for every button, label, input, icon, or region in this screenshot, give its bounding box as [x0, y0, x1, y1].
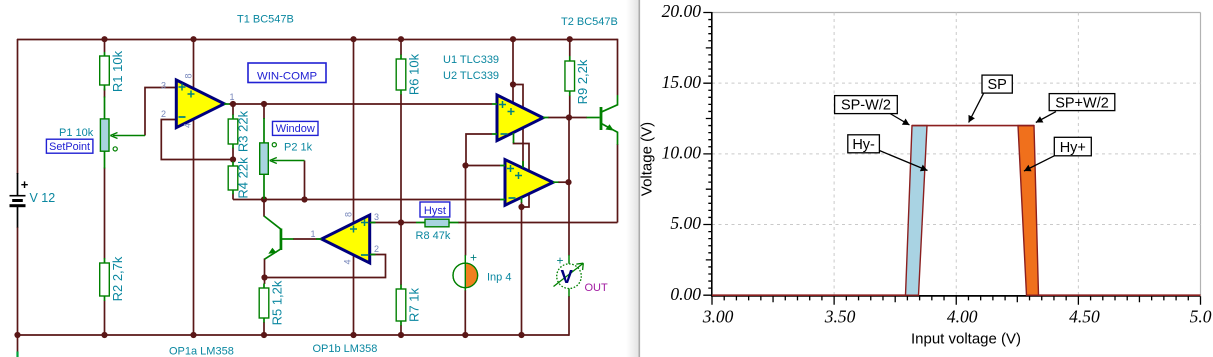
wire R8 node down to R7: [400, 223, 402, 286]
value label R7 1k: [406, 288, 421, 322]
svg-text:R6 10k: R6 10k: [406, 53, 421, 95]
resistor R9: [565, 56, 575, 96]
wire OP1b pin4 to bottom rail: [353, 252, 355, 335]
transistor T2 (BC547B): [587, 95, 618, 145]
wire Inp4 bottom to rail: [464, 290, 466, 335]
svg-text:R5 1,2k: R5 1,2k: [270, 280, 285, 325]
svg-text:Inp 4: Inp 4: [487, 272, 511, 284]
label P1 10k: [59, 127, 94, 139]
pin 1 OP1b: [310, 229, 315, 239]
label OP1a LM358: [169, 346, 234, 357]
wire input node to U2 plus: [466, 165, 501, 167]
svg-text:+: +: [470, 251, 477, 265]
pin 4 OP1b: [343, 259, 353, 264]
svg-text:P1 10k: P1 10k: [59, 127, 94, 139]
svg-text:Hyst: Hyst: [424, 205, 446, 217]
svg-text:SP-W/2: SP-W/2: [841, 98, 891, 114]
svg-text:Input voltage (V): Input voltage (V): [911, 331, 1021, 348]
junction bottom rail R2: [101, 332, 107, 338]
wire R4 bottom to U2 minus net: [232, 194, 234, 200]
wire R7 bottom to rail: [400, 325, 402, 335]
svg-text:8: 8: [344, 212, 354, 217]
svg-text:0.00: 0.00: [670, 284, 701, 304]
pin 3 OP1b: [374, 212, 379, 222]
wire U1 bottom power path: [514, 142, 530, 207]
transistor T1 (BC547B): [264, 216, 294, 259]
svg-text:T1 BC547B: T1 BC547B: [237, 14, 294, 26]
svg-text:R2 2,7k: R2 2,7k: [110, 256, 125, 301]
pin 1 OP1a: [229, 92, 234, 102]
bottom rail wire: [17, 334, 569, 336]
junction T1 emitter R5: [261, 274, 267, 280]
svg-text:8: 8: [184, 73, 194, 78]
svg-text:3.00: 3.00: [702, 307, 734, 327]
svg-text:4.50: 4.50: [1069, 307, 1100, 327]
svg-text:SetPoint: SetPoint: [49, 141, 90, 153]
junction bottom rail R7: [398, 332, 404, 338]
wire R8 right to T2 emitter net: [458, 222, 618, 224]
curve hysteresis region high (orange): [1018, 126, 1039, 296]
wire P1 bottom to R2 top: [104, 168, 106, 259]
chart plot frame: [712, 13, 1201, 296]
svg-text:1: 1: [229, 92, 234, 102]
wire OP1a pin4 to bottom rail: [193, 115, 195, 335]
svg-text:SP+W/2: SP+W/2: [1055, 95, 1109, 111]
svg-text:R7 1k: R7 1k: [406, 288, 421, 322]
chart y-axis: [703, 12, 712, 296]
wire T2 emitter vertical: [617, 144, 619, 223]
pin 2 OP1b: [374, 244, 379, 254]
junction top rail OP1b pin8: [350, 36, 356, 42]
svg-text:V 12: V 12: [30, 191, 56, 205]
chart gridlines: [712, 13, 1201, 295]
label box Hyst: [420, 202, 450, 217]
wire U1 output node: [548, 117, 569, 119]
wire R3 top lead: [232, 104, 234, 115]
wire left rail to battery: [17, 39, 19, 174]
svg-text:R4 22k: R4 22k: [236, 157, 251, 199]
ground: [16, 352, 18, 357]
wire bottom-left stub to ground: [17, 335, 19, 352]
annotation SP-W/2: [835, 96, 910, 125]
junction P2 top: [261, 101, 267, 107]
pin 2 OP1a: [161, 109, 166, 119]
svg-text:WIN-COMP: WIN-COMP: [257, 70, 317, 82]
wire P2 top: [263, 104, 265, 119]
junction bottom rail R5: [261, 332, 267, 338]
resistor R5: [259, 284, 269, 323]
wire U1 power jog to U2 power: [513, 85, 523, 168]
wire U2 output to node: [558, 181, 569, 183]
pin 8 OP1b: [344, 212, 354, 217]
svg-text:R3 22k: R3 22k: [236, 110, 251, 152]
wire R6 top lead: [400, 39, 402, 55]
wire OP1b pin8 to top rail: [353, 39, 355, 225]
svg-text:OP1b LM358: OP1b LM358: [313, 343, 378, 355]
wire OP1a pin8 to top rail: [193, 39, 195, 95]
wire T1 collector: [263, 200, 265, 217]
battery V1 12V: [10, 173, 29, 228]
resistor R4: [228, 162, 238, 195]
svg-text:3.50: 3.50: [824, 307, 856, 327]
junction top rail R9: [567, 36, 573, 42]
resistor R2: [100, 258, 110, 301]
chart x-axis labels: [702, 307, 1212, 327]
potentiometer P1: [100, 97, 145, 169]
svg-text:Hy-: Hy-: [852, 137, 875, 153]
junction top rail R6: [398, 36, 404, 42]
wire T1 emitter down: [264, 259, 266, 285]
wire R9 top lead: [569, 39, 571, 56]
junction bottom rail OP1a pin4: [190, 332, 196, 338]
svg-text:20.00: 20.00: [662, 1, 702, 21]
wire R6 bottom to R8 node: [400, 94, 402, 223]
svg-text:+: +: [557, 254, 564, 268]
junction bottom rail OP1b pin4: [350, 332, 356, 338]
wire OP1b pin3 to R8 node: [370, 222, 401, 224]
wire U2 bottom power to rail: [521, 202, 523, 335]
junction bottom rail battery: [14, 332, 20, 338]
junction T1 collector net: [261, 196, 267, 202]
wire R8 left lead: [401, 222, 416, 224]
svg-text:R8 47k: R8 47k: [416, 230, 451, 242]
svg-text:U1 TLC339: U1 TLC339: [443, 54, 499, 66]
voltmeter OUT: [554, 254, 584, 297]
wire U1 minus to input node: [466, 134, 492, 166]
chart y-axis labels: [662, 1, 702, 304]
label T1 BC547B: [237, 14, 294, 26]
svg-text:5.00: 5.00: [670, 213, 701, 233]
svg-text:+: +: [21, 177, 29, 192]
junction U1 output node: [566, 114, 572, 120]
svg-text:4.00: 4.00: [947, 307, 978, 327]
wire OP1a pin2 feedback: [161, 120, 233, 160]
potentiometer P2: [260, 118, 305, 199]
annotation SP+W/2: [1036, 94, 1115, 123]
label box WIN-COMP: [248, 63, 326, 83]
junction input node U1 minus U2 plus: [462, 162, 468, 168]
svg-text:U2 TLC339: U2 TLC339: [443, 70, 499, 82]
label V 12: [30, 191, 56, 205]
junction top rail OP1a pin8: [190, 36, 196, 42]
wire battery to bottom rail: [17, 227, 19, 336]
label box Window: [273, 121, 319, 135]
value label R3 22k: [236, 110, 251, 152]
svg-text:OP1a LM358: OP1a LM358: [169, 346, 234, 357]
wire R9 bottom to node: [569, 96, 571, 118]
resistor R3: [228, 115, 238, 149]
comparator U1 (TLC339): [492, 95, 549, 141]
junction R8 left node: [398, 219, 404, 225]
label box SetPoint: [46, 139, 93, 153]
wire R5 bottom to rail: [263, 322, 265, 335]
svg-text:4: 4: [183, 123, 193, 128]
svg-text:3: 3: [161, 81, 166, 91]
junction bottom rail U2 power: [518, 332, 524, 338]
wire output node vertical to meter: [568, 118, 570, 256]
svg-text:4: 4: [343, 259, 353, 264]
svg-text:3: 3: [374, 212, 379, 222]
value label R9 2,2k: [575, 59, 590, 104]
junction P2 wiper net: [301, 196, 307, 202]
junction top rail R1: [101, 36, 107, 42]
junction R3 R4 feedback: [230, 156, 236, 162]
resistor R6: [396, 55, 406, 95]
svg-text:2: 2: [161, 109, 166, 119]
wire U1 bottom power green stub: [514, 133, 524, 203]
label P2 1k: [284, 142, 313, 154]
svg-text:V: V: [561, 266, 574, 287]
pin 4 OP1a: [183, 123, 193, 128]
resistor R7: [396, 285, 406, 326]
chart axis title Voltage (V): [639, 122, 656, 196]
junction U2 bottom power: [518, 204, 524, 210]
value label R6 10k: [406, 53, 421, 95]
svg-text:OUT: OUT: [585, 282, 609, 294]
annotation SP: [969, 75, 1013, 122]
wire meter bottom to rail: [568, 296, 570, 336]
junction OP1a output R3: [230, 101, 236, 107]
svg-text:Window: Window: [276, 123, 315, 135]
wire OP1a pin3 to P1 wiper: [145, 88, 177, 136]
junction U2 output node: [565, 179, 571, 185]
wire U1 power pin top: [512, 39, 514, 103]
wire P2 wiper down: [304, 161, 306, 200]
label OUT: [585, 282, 609, 294]
junction U1 power branch: [510, 81, 516, 87]
label T2 BC547B: [561, 16, 618, 28]
wire R2 bottom to rail: [104, 301, 106, 336]
voltage generator Inp 4: [453, 251, 478, 291]
svg-text:15.00: 15.00: [662, 72, 702, 92]
chart x-axis: [711, 296, 1201, 305]
curve output characteristic: [712, 126, 1201, 296]
svg-text:2: 2: [374, 244, 379, 254]
wire input node vertical: [465, 166, 467, 256]
svg-text:Voltage (V): Voltage (V): [639, 122, 656, 196]
wire T1 base to OP1b output: [293, 238, 322, 240]
wire OP1b pin2 feedback loop: [265, 255, 386, 278]
value label R4 22k: [236, 157, 251, 199]
wire T2 base: [569, 117, 587, 119]
svg-text:1: 1: [310, 229, 315, 239]
pin 8 OP1a: [184, 73, 194, 78]
curve hysteresis region low (blue): [906, 126, 928, 296]
label Inp 4: [487, 272, 511, 284]
chart axis title Input voltage (V): [911, 331, 1021, 348]
op-amp OP1b (LM358): [316, 215, 376, 263]
svg-text:10.00: 10.00: [662, 143, 702, 163]
junction bottom rail Inp4: [462, 332, 468, 338]
wire top-right corner down to T2 collector: [617, 39, 619, 95]
op-amp OP1a (LM358): [176, 80, 229, 128]
svg-text:R1 10k: R1 10k: [110, 50, 125, 92]
svg-text:Hy+: Hy+: [1060, 140, 1086, 156]
wire R3 to R4 node: [232, 148, 234, 163]
wire R1 bottom to P1 top: [104, 89, 106, 98]
comparator U2 (TLC339): [500, 160, 559, 206]
svg-text:P2 1k: P2 1k: [284, 142, 313, 154]
wire OP1a output to U1 plus input: [229, 103, 492, 105]
svg-text:5.0: 5.0: [1190, 307, 1212, 327]
divider: [626, 0, 640, 357]
label U1 TLC339: [443, 54, 499, 66]
value label R1 10k: [110, 50, 125, 92]
value label R2 2,7k: [110, 256, 125, 301]
label U2 TLC339: [443, 70, 499, 82]
label OP1b LM358: [313, 343, 378, 355]
wire R1 column top: [104, 39, 106, 52]
pin 3 OP1a: [161, 81, 166, 91]
value label R5 1,2k: [270, 280, 285, 325]
wire U2 minus net: [233, 199, 500, 201]
label R8 47k: [416, 230, 451, 242]
annotation Hy-: [848, 135, 928, 171]
junction top rail U1 power: [510, 36, 516, 42]
resistor R8 (horizontal): [416, 219, 459, 227]
svg-text:T2 BC547B: T2 BC547B: [561, 16, 618, 28]
wire P2 bottom to net: [263, 197, 265, 200]
annotation Hy+: [1024, 137, 1091, 171]
svg-text:SP: SP: [987, 77, 1006, 93]
svg-text:R9 2,2k: R9 2,2k: [575, 59, 590, 104]
resistor R1: [100, 52, 110, 91]
top power rail wire: [17, 39, 618, 41]
schematic background: [0, 0, 640, 357]
